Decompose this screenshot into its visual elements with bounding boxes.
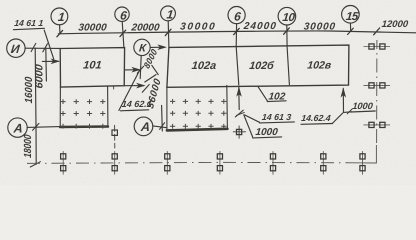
fence post x273 xyxy=(270,151,275,175)
svg-text:102б: 102б xyxy=(249,60,275,72)
annex1 thick bottom xyxy=(60,125,108,128)
arrowhead K right xyxy=(158,45,166,49)
leader 14.62.4 xyxy=(333,113,343,123)
stem axis 10 / wall 102b-102v xyxy=(287,25,290,85)
svg-text:30000: 30000 xyxy=(303,21,336,32)
svg-text:1000: 1000 xyxy=(255,127,279,138)
leader 14.62.1 xyxy=(119,71,140,111)
svg-text:30000: 30000 xyxy=(78,22,108,33)
column marks annex1 xyxy=(60,99,105,128)
fence post x167 xyxy=(165,151,170,175)
tick below extension arrow xyxy=(142,85,149,93)
axis circle 6a xyxy=(115,7,129,21)
tick on I line x33 xyxy=(31,43,36,51)
annex2 outline xyxy=(167,85,228,130)
tick axis 10 xyxy=(284,28,290,34)
fence posts right side xyxy=(364,44,391,128)
annex2 thick bottom xyxy=(167,129,228,131)
axis circle 1b xyxy=(161,6,176,21)
fence post y46 xyxy=(364,44,391,49)
axis circle 10 xyxy=(278,7,296,25)
tick at fence crossing xyxy=(30,162,40,167)
fence post x220 xyxy=(217,151,222,175)
fence bottom dash-dot line xyxy=(27,40,377,163)
dim line 1000 right x343 xyxy=(342,89,344,113)
tick axis 15 xyxy=(348,28,354,34)
building 101 outline xyxy=(60,48,124,87)
svg-text:А: А xyxy=(139,120,150,134)
svg-text:24000: 24000 xyxy=(242,21,277,32)
vertical line x162 xyxy=(161,105,164,131)
axis circle A2 xyxy=(134,117,153,136)
fence post x63 xyxy=(61,151,66,175)
post single x239 cross lines xyxy=(233,131,245,133)
vertical dim line 6000 xyxy=(45,48,48,81)
leader 1000 bottom xyxy=(244,115,253,137)
fence post y125 xyxy=(364,122,391,127)
underline 1000 right xyxy=(351,111,376,112)
svg-text:102в: 102в xyxy=(307,60,333,72)
stem axis 1b xyxy=(167,21,170,48)
paper background xyxy=(0,0,416,185)
svg-text:12000: 12000 xyxy=(381,19,409,30)
underline 14.61.1 xyxy=(13,28,44,29)
svg-text:102а: 102а xyxy=(191,60,217,72)
leader 14 61 3 xyxy=(245,115,260,122)
column marks annex2 xyxy=(170,99,226,129)
arrow to K axis xyxy=(125,69,139,71)
post square single x114.7 xyxy=(112,130,117,135)
tick axis 6b xyxy=(234,28,240,34)
connector stub x113.6 xyxy=(113,86,115,89)
leader arrow 1000 right xyxy=(344,111,352,114)
svg-text:1000: 1000 xyxy=(352,101,374,111)
arrowhead 14.61.1 xyxy=(52,59,60,63)
svg-text:102: 102 xyxy=(268,91,286,102)
arrowhead to K axis xyxy=(132,68,140,72)
svg-text:14.62.4: 14.62.4 xyxy=(301,113,331,123)
fence right dash-dot line xyxy=(376,40,378,143)
fence post y85 xyxy=(364,83,391,88)
axis circle I xyxy=(7,39,25,57)
tick axis 1a xyxy=(57,30,63,36)
stem axis K xyxy=(140,56,141,79)
tick pair x239 bottom xyxy=(235,110,243,117)
axis A2 line xyxy=(153,126,167,128)
svg-text:14 61 1: 14 61 1 xyxy=(14,18,44,28)
svg-text:101: 101 xyxy=(83,60,103,72)
axis circle 1a xyxy=(51,8,68,25)
tick axis 1b xyxy=(165,29,171,35)
fence post x115 xyxy=(112,151,117,175)
stem axis 6b / wall 102a-102b xyxy=(236,24,239,85)
building 102 outline xyxy=(167,45,349,87)
dim line 1000 below building2 mid xyxy=(238,88,240,110)
underline 1000 bottom xyxy=(253,137,282,138)
svg-text:6000: 6000 xyxy=(33,64,45,89)
tick on I line x45.5 xyxy=(43,44,48,52)
arrow 14.61.1 horizontal xyxy=(42,60,58,62)
vertical dim line 16000/18000 xyxy=(35,48,36,164)
dash line below x114.7 xyxy=(114,125,116,148)
tick at K arrow xyxy=(137,66,143,73)
fence post x323 xyxy=(321,151,326,175)
tick on A2 line xyxy=(160,123,165,130)
arrowhead extension right xyxy=(137,83,145,87)
axis A line xyxy=(27,126,60,129)
stem axis 1a xyxy=(59,25,61,34)
axis I line xyxy=(25,47,60,49)
axis circle 6b xyxy=(228,7,245,24)
underline 14.62.4 xyxy=(301,123,333,126)
svg-text:10: 10 xyxy=(282,12,296,24)
tick fence-right xyxy=(374,28,380,35)
svg-text:20000: 20000 xyxy=(130,22,161,33)
stem axis 15 xyxy=(349,23,351,31)
fence corner solid xyxy=(352,145,376,163)
axis circle K xyxy=(134,39,150,55)
svg-text:30000: 30000 xyxy=(180,21,217,32)
axis circle 15 xyxy=(342,6,360,24)
tick at x343 bottom xyxy=(347,109,352,114)
svg-text:18000: 18000 xyxy=(21,133,33,158)
leader 14.61.1 xyxy=(44,30,54,59)
break stroke B near 8000 xyxy=(145,75,156,82)
underline 102 xyxy=(267,100,286,103)
extension line to 36000 dim with arrowhead xyxy=(124,85,143,87)
underline 14.62.1 xyxy=(120,110,148,111)
fence posts bottom xyxy=(61,151,366,175)
arrowhead up x239 xyxy=(237,88,241,96)
fence post x362 xyxy=(360,151,365,175)
tick axis 6a xyxy=(120,30,126,36)
leader 102 xyxy=(258,86,268,101)
axis circle A xyxy=(8,118,27,137)
top dimension line xyxy=(58,31,416,34)
tick at A crossing xyxy=(33,123,39,130)
break stroke A near 8000 xyxy=(152,65,158,74)
arrowhead up x343 xyxy=(341,88,345,96)
arrow from K circle to building xyxy=(150,46,164,48)
svg-text:14 61 3: 14 61 3 xyxy=(261,112,291,122)
stem axis 6a xyxy=(122,21,124,47)
annex1 outline xyxy=(60,86,108,127)
underline 14 61 3 xyxy=(260,122,295,123)
post square single x239 (dark) xyxy=(237,129,242,134)
